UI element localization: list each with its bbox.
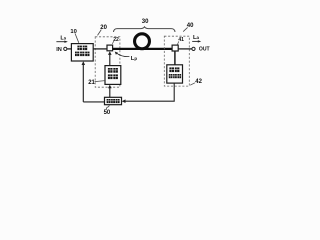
polarization controller box 10 <box>71 44 93 61</box>
box 21 text line1 (2 kanji) <box>108 68 118 73</box>
erbium fiber (thick line between couplers) <box>113 48 173 50</box>
arrow under La <box>192 40 201 42</box>
pump source box 21 <box>105 66 121 85</box>
output terminal circle <box>192 47 195 50</box>
brace for 30 <box>114 27 176 32</box>
splitter coupler 41 <box>172 45 178 51</box>
EDF coil 30 <box>135 34 150 49</box>
leader from 22 to coupler <box>112 41 114 44</box>
svg-text:10: 10 <box>70 29 76 35</box>
svg-text:IN: IN <box>56 47 62 53</box>
svg-text:20: 20 <box>100 25 107 31</box>
controller box 50 <box>105 97 122 104</box>
box 50 text (3 kanji) <box>107 99 120 103</box>
box 10 text line2 (3 kanji) <box>75 52 90 57</box>
svg-text:21: 21 <box>88 80 95 86</box>
box 10 text line1 (2 kanji) <box>77 46 87 51</box>
feedback wire: monitor down and left into controller 50 <box>122 83 175 103</box>
input terminal circle <box>64 47 67 50</box>
leader from 21 to pump box <box>95 81 105 82</box>
box 42 text line2 (3 katakana) <box>169 74 181 78</box>
svg-text:22: 22 <box>113 37 119 43</box>
output monitor box 42 <box>167 65 183 83</box>
svg-text:OUT: OUT <box>199 47 211 53</box>
svg-text:30: 30 <box>142 19 149 25</box>
arrow from controller 50 into box 10 bottom <box>82 61 105 102</box>
arrow under Ls <box>56 41 67 43</box>
wire: box 10 to coupler 22 <box>93 48 107 50</box>
tap wire: coupler 41 down to monitor <box>174 51 176 65</box>
wire: IN terminal to polarization controller <box>67 48 71 50</box>
leader from 42 to dashed box <box>190 83 195 85</box>
curved leader arrow for Lp <box>115 52 130 57</box>
pump light arrow: pump source to coupler 22 <box>108 51 112 65</box>
wire: coupler 41 to OUT terminal <box>178 48 192 50</box>
svg-text:50: 50 <box>104 110 111 116</box>
dashed block 20 (pump unit) <box>95 37 120 87</box>
svg-text:40: 40 <box>187 23 194 29</box>
leader from 41 to coupler <box>177 41 178 44</box>
svg-text:42: 42 <box>195 79 202 85</box>
box 21 text line2 (2 kanji) <box>108 74 118 79</box>
squiggle leader from 50 to controller box <box>106 105 109 109</box>
dashed block 40 (output unit) <box>164 36 189 86</box>
box 42 text line1 (2 kanji) <box>169 67 179 72</box>
WDM coupler 22 <box>107 45 113 51</box>
arrow from controller 50 into pump box bottom <box>108 85 112 98</box>
leader from 10 to box <box>75 33 79 42</box>
leader from 20 to dashed box corner <box>98 30 102 36</box>
leader from 40 to dashed box <box>183 27 187 31</box>
svg-text:41: 41 <box>178 37 184 43</box>
